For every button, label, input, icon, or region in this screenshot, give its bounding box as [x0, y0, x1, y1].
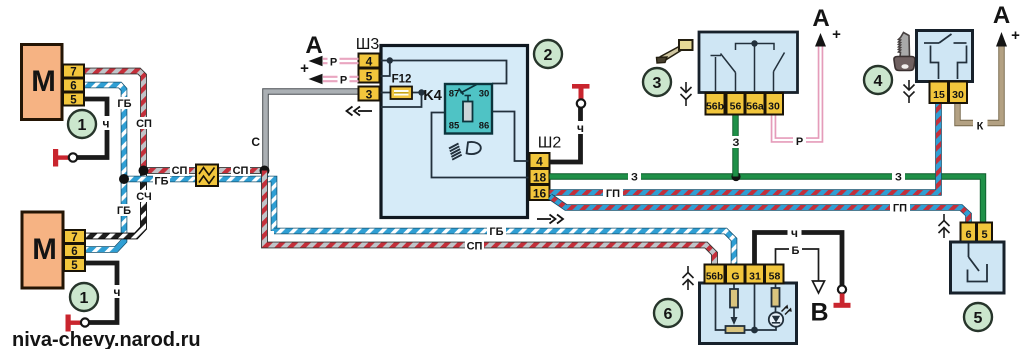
svg-text:5: 5 [70, 95, 77, 107]
label СП on bus [465, 240, 484, 253]
svg-text:2: 2 [544, 47, 553, 64]
svg-text:niva-chevy.narod.ru: niva-chevy.narod.ru [12, 329, 201, 349]
switch internal blade 56 [721, 54, 736, 93]
ground G3 near Ш2 with wire ч to Ш2-4 [550, 107, 581, 162]
connector pin 56a item3 [746, 93, 765, 115]
mounting block box (item 2) [381, 46, 528, 218]
svg-text:1: 1 [80, 290, 89, 307]
label ч motor2 [110, 285, 125, 299]
cluster wire 56b leg [716, 283, 726, 330]
svg-text:85: 85 [449, 121, 460, 132]
continuation arrow right (double chevron) [537, 215, 563, 224]
svg-text:86: 86 [479, 121, 490, 132]
label Р wire 1 [328, 55, 340, 69]
label ч near Ш2 [574, 121, 588, 135]
svg-text:СП: СП [172, 165, 188, 177]
connector pin 5 item5 [977, 223, 992, 243]
wire ГП Ш2-16 branch to item5 pin 6 [550, 197, 969, 224]
lever icon (switch stalk) [657, 40, 693, 63]
svg-text:6: 6 [70, 81, 76, 93]
fuse F12 [391, 87, 413, 100]
svg-text:3: 3 [653, 75, 662, 92]
svg-text:3: 3 [366, 88, 373, 102]
switch internal item5 [968, 244, 988, 282]
svg-text:18: 18 [533, 171, 547, 185]
connector fork symbol item4 [904, 80, 915, 103]
wire ч item6 pin 31 to ground [755, 233, 843, 288]
continuation arrow left (double chevron) [347, 107, 373, 116]
wire СП splice to node C [218, 167, 265, 174]
node in cluster [751, 327, 758, 334]
svg-text:СП: СП [136, 118, 152, 130]
switch internal bar with node and 56a [736, 44, 775, 93]
svg-text:ч: ч [114, 285, 121, 299]
svg-text:З: З [631, 172, 638, 184]
svg-text:31: 31 [749, 271, 761, 283]
svg-text:6: 6 [664, 306, 673, 323]
label ч motor1 [99, 116, 114, 131]
svg-text:+: + [300, 60, 309, 77]
svg-text:СП: СП [467, 241, 483, 253]
svg-text:56: 56 [730, 101, 742, 113]
wire ч motor2 pin5 to ground [84, 263, 117, 323]
motor M1 body [22, 45, 63, 120]
internal wire W4: relay 86 to Ш2-4 [492, 112, 529, 162]
label ГП left [603, 187, 623, 200]
callout circle 1 (motor 1) [68, 110, 96, 138]
wire СП motor1 pin7 to junction [84, 71, 144, 171]
label СП motor1 [135, 117, 153, 130]
junction node С/СП [260, 166, 270, 176]
svg-text:6: 6 [965, 229, 971, 241]
wire ГБ motor2 pin6 to junction [84, 179, 124, 250]
svg-text:Р: Р [330, 57, 337, 69]
ignition relay box (item 4) [917, 31, 973, 82]
svg-text:ГБ: ГБ [489, 226, 503, 238]
svg-text:56b: 56b [706, 272, 723, 283]
svg-text:Б: Б [792, 245, 800, 257]
wire Б item6 pin 58 to circuit B [776, 249, 819, 281]
svg-text:58: 58 [769, 271, 781, 283]
svg-text:M: M [32, 233, 57, 266]
switch internal blade 30 [774, 53, 785, 93]
label ГП right [890, 202, 910, 215]
svg-text:ГП: ГП [893, 203, 907, 215]
svg-text:4: 4 [874, 73, 883, 90]
battery arrow A for item3 [815, 33, 826, 47]
svg-text:4: 4 [536, 155, 543, 169]
wire З green bus Ш2-18 to item5 pin 5 [550, 177, 984, 224]
light switch box (item 3) [699, 32, 798, 93]
label СП right of splice [231, 164, 250, 177]
svg-text:Р: Р [796, 136, 803, 148]
svg-text:15: 15 [933, 89, 945, 101]
label Р on item3 wire [793, 134, 806, 148]
svg-text:ГП: ГП [606, 188, 620, 200]
label ч item6 [788, 226, 802, 240]
svg-text:G: G [731, 271, 739, 283]
instrument cluster box (item 6) [700, 283, 797, 344]
cluster bottom wire [745, 326, 777, 330]
wire ГБ bottom bus to item6 G [274, 231, 734, 264]
svg-text:З: З [733, 137, 740, 149]
cluster lamp resistor (vertical) [772, 283, 780, 313]
connector Ш2 pin 16 [530, 185, 550, 200]
svg-text:56a: 56a [746, 101, 764, 113]
wire СП node C down and along bottom to item6 56b [265, 171, 715, 265]
cluster sender resistor (horizontal) [726, 326, 745, 333]
svg-text:M: M [31, 65, 56, 98]
cluster indicator LED [769, 312, 783, 326]
connector fork symbol item3 [681, 82, 692, 106]
label Б [789, 243, 802, 257]
label Р wire 2 [338, 73, 350, 87]
svg-text:СП: СП [233, 165, 249, 177]
motor M2 connector pin 7 [64, 230, 85, 243]
relay internal right bracket [958, 46, 967, 80]
svg-text:16: 16 [533, 187, 547, 201]
connector pin 56b item6 [705, 265, 725, 284]
fog switch box (item 5) [951, 242, 1005, 293]
cluster wire 31 leg [754, 283, 756, 330]
node on switch bar [751, 40, 757, 46]
svg-text:7: 7 [71, 232, 77, 244]
relay internal top contacts [924, 34, 967, 43]
callout circle 4 [864, 66, 892, 94]
svg-text:А: А [305, 32, 322, 59]
svg-text:5: 5 [981, 229, 987, 241]
svg-text:30: 30 [952, 89, 964, 101]
internal wire W3: relay 85 side to Ш2-18 [432, 113, 530, 178]
connector pin 15 item4 [930, 82, 949, 104]
node on W2 [418, 89, 424, 95]
svg-text:Ш3: Ш3 [356, 36, 380, 53]
svg-text:К: К [977, 121, 984, 133]
splice connector (yellow) [196, 165, 218, 187]
connector pin 58 item6 [765, 265, 784, 284]
motor M1 connector pin 6 [63, 79, 84, 92]
callout circle 1 (motor 2) [70, 283, 98, 311]
svg-text:З: З [895, 172, 902, 184]
ground G4 (body) [834, 285, 851, 307]
connector Ш3 pin 3 [359, 87, 380, 101]
svg-text:В: В [810, 299, 828, 327]
callout circle 3 [643, 68, 671, 96]
svg-text:ГБ: ГБ [117, 98, 131, 110]
connector pin 56b item3 [706, 93, 725, 115]
fog lamp icon [449, 142, 481, 160]
svg-text:5: 5 [71, 260, 78, 272]
hollow arrow to B [813, 281, 825, 293]
label З left [628, 171, 641, 184]
wire ГБ motor1 pin6 to junction [84, 85, 124, 179]
relay internal left bracket [931, 46, 939, 80]
relay coil [463, 96, 473, 122]
connector fork symbol item6 [683, 266, 694, 290]
cluster gauge pointer arrow [731, 308, 738, 326]
motor M1 connector pin 5 [63, 93, 84, 106]
svg-text:30: 30 [479, 89, 490, 100]
connector pin 30 item4 [949, 82, 967, 104]
wire К item4 pin 30 to battery A [958, 46, 1002, 123]
label ГБ motor1 [116, 97, 133, 110]
wire З item3 pin 56 down to green bus [732, 114, 738, 177]
junction node on green bus [731, 172, 740, 181]
label ГБ motor2 vertical leg [116, 204, 133, 217]
battery arrow A for item4 [996, 32, 1007, 47]
svg-text:ч: ч [103, 117, 110, 131]
svg-text:Ш2: Ш2 [538, 135, 562, 152]
label ГБ on bus [487, 225, 506, 238]
key icon (ignition) [894, 33, 915, 71]
junction node ГБ [119, 174, 129, 184]
relay contact blade [459, 85, 477, 95]
internal wire W2: Ш3-3 via fuse to edge arrow [380, 93, 422, 108]
switch internal contact 56b [711, 56, 722, 93]
motor M2 connector pin 6 [64, 244, 85, 257]
connector pin 6 item5 [961, 223, 977, 243]
svg-text:5: 5 [366, 70, 373, 84]
motor M2 body [22, 212, 63, 288]
connector Ш2 pin 18 [530, 169, 550, 184]
wire P arrow 1 to Ш3-4 [309, 56, 359, 66]
label СЧ motor2 [135, 190, 153, 203]
ground G1 motor1 [53, 149, 77, 167]
svg-text:87: 87 [449, 89, 460, 100]
connector Ш3 pin 5 [359, 69, 380, 83]
junction node СП/СЧ [139, 166, 149, 176]
svg-text:6: 6 [71, 246, 77, 258]
motor M2 connector pin 5 [64, 258, 85, 271]
svg-text:7: 7 [70, 67, 76, 79]
svg-text:ГБ: ГБ [117, 205, 131, 217]
svg-text:F12: F12 [392, 74, 412, 86]
connector Ш3 pin 4 [359, 54, 380, 68]
svg-text:СЧ: СЧ [136, 191, 151, 203]
svg-text:1: 1 [78, 117, 87, 134]
svg-text:ч: ч [577, 121, 584, 135]
svg-text:С: С [251, 135, 260, 149]
motor M1 connector pin 7 [63, 65, 84, 78]
label З on item3 drop [730, 136, 743, 149]
svg-text:K4: K4 [423, 88, 442, 104]
connector pin G item6 [726, 265, 745, 284]
wire СП junction to splice [144, 167, 197, 174]
svg-text:30: 30 [768, 101, 780, 113]
svg-text:+: + [1011, 27, 1020, 44]
label З right [892, 171, 905, 184]
wire P arrow 2 to Ш3-5 [309, 74, 359, 84]
svg-text:Р: Р [340, 75, 347, 87]
connector fork symbol item5 [939, 214, 950, 238]
LED light arrows [782, 305, 792, 315]
wire ч motor1 pin5 to ground [77, 99, 107, 158]
wire Р item3 pin 30 to battery A [774, 46, 821, 140]
callout circle 5 [964, 303, 992, 331]
connector pin 56 item3 [727, 93, 745, 115]
wire ГП Ш2-16 to item4 pin 15 [550, 102, 939, 193]
cluster gauge resistor (vertical) [730, 283, 738, 308]
svg-text:5: 5 [974, 310, 983, 327]
wire СЧ motor2 pin7 to junction [84, 171, 144, 236]
callout circle 6 [654, 299, 682, 327]
svg-text:А: А [812, 5, 829, 32]
svg-text:4: 4 [366, 55, 373, 69]
callout circle 2 [534, 40, 562, 68]
node on W1 [387, 57, 393, 63]
svg-text:ГБ: ГБ [154, 176, 168, 188]
svg-text:+: + [832, 26, 841, 43]
wire ГБ junction to corner [124, 179, 274, 231]
connector pin 30 item3 [766, 93, 784, 115]
connector Ш2 pin 4 [530, 153, 550, 168]
ground G2 motor2 [66, 315, 90, 332]
svg-text:56b: 56b [706, 101, 724, 113]
label К on item4 wire [973, 119, 988, 133]
wire C from Ш3-3 down to node [266, 92, 361, 171]
internal wire W1: Ш3-4/5 to relay 30 [380, 61, 507, 84]
relay K4 body [445, 84, 492, 134]
label СП left of splice [170, 164, 189, 177]
connector pin 31 item6 [746, 265, 765, 284]
svg-text:ч: ч [791, 226, 798, 240]
label ГБ mid horizontal [153, 175, 170, 188]
svg-text:А: А [993, 2, 1010, 29]
